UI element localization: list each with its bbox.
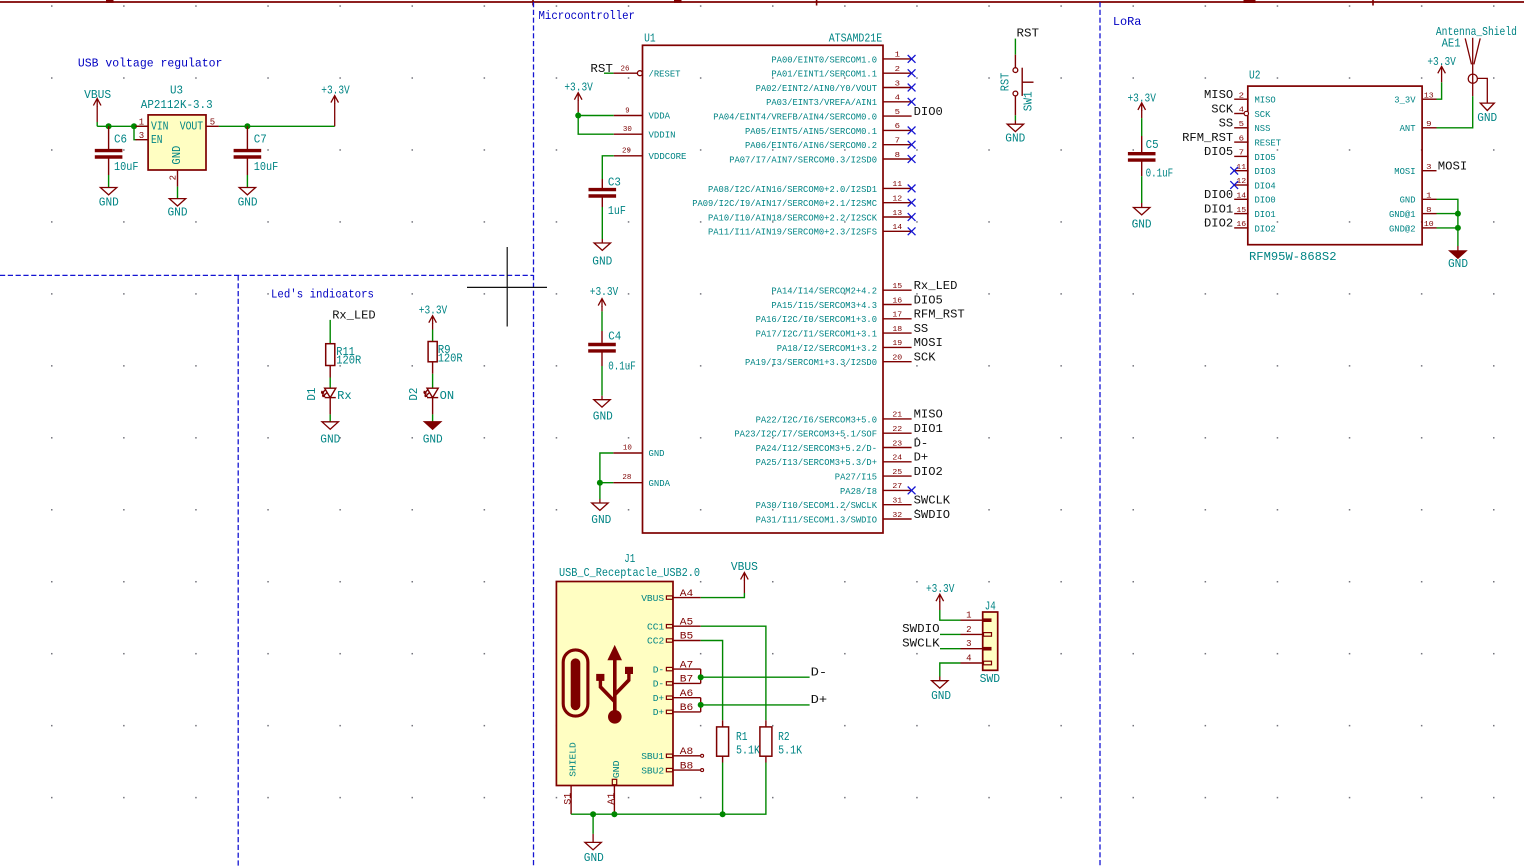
svg-text:3: 3: [966, 639, 971, 649]
svg-text:+3.3V: +3.3V: [419, 304, 448, 318]
svg-text:PA27/I15: PA27/I15: [835, 472, 877, 483]
svg-text:S1: S1: [564, 793, 575, 805]
wire J1 CC1 to R2: [701, 626, 766, 720]
wire +3.3V to J4 pin 1: [940, 610, 961, 620]
svg-text:Microcontroller: Microcontroller: [539, 9, 636, 23]
U1 pin 6 (PA05/EINT5/AIN5/SERCOM0.1): [745, 123, 912, 137]
svg-text:RFM_RST: RFM_RST: [914, 308, 965, 322]
no-connect cross on U1 pin 6: [908, 127, 916, 135]
svg-text:SCK: SCK: [1255, 109, 1271, 120]
J1 shield pin S1: [564, 742, 579, 814]
junction at VBUS/C6: [106, 123, 112, 129]
U2 pin 15 (DIO1): [1234, 207, 1276, 220]
ground symbol below D1: [322, 422, 338, 429]
svg-text:GND: GND: [611, 760, 622, 778]
junction at VBUS/EN branch: [131, 123, 137, 129]
U1 pin 12 (PA09/I2C/I9/AIN17/SERCOM0+2.1/I2SMC): [692, 196, 911, 210]
svg-text:4: 4: [895, 95, 900, 103]
U2 pin 13 (3_3V): [1394, 92, 1436, 105]
ground symbol below D2 (filled): [424, 422, 440, 429]
svg-text:PA28/I8: PA28/I8: [840, 486, 877, 497]
svg-text:GND@1: GND@1: [1389, 209, 1416, 220]
svg-text:10: 10: [623, 444, 632, 452]
svg-text:U2: U2: [1249, 69, 1261, 83]
svg-text:USB_C_Receptacle_USB2.0: USB_C_Receptacle_USB2.0: [559, 566, 700, 580]
svg-text:R1: R1: [736, 730, 748, 744]
U1 pin 7 (PA06/EINT6/AIN6/SERCOM0.2): [745, 138, 912, 152]
U1 pin 32 (PA31/I11/SECOM1.3/SWDIO): [756, 512, 912, 526]
section divider dashed line (vertical, LoRa left edge): [1099, 2, 1101, 867]
svg-text:16: 16: [1236, 221, 1246, 229]
svg-text:1: 1: [966, 611, 971, 621]
led D2: [424, 388, 438, 414]
U1 pin 25 (PA27/I15): [835, 469, 912, 483]
svg-text:C4: C4: [608, 329, 621, 343]
U2 pin 5 (NSS): [1234, 121, 1270, 134]
svg-text:4: 4: [1239, 107, 1244, 115]
junction GNDA: [597, 480, 603, 486]
ground symbol below C7: [239, 188, 255, 195]
svg-text:D-: D-: [653, 664, 665, 675]
svg-text:RESET: RESET: [1255, 138, 1282, 149]
svg-text:GND: GND: [1477, 111, 1497, 125]
capacitor C6: [95, 126, 123, 175]
svg-text:GND: GND: [1005, 131, 1025, 145]
wire R11 to D1: [329, 378, 331, 389]
wire U2 GND pins to ground: [1437, 199, 1458, 246]
svg-text:MOSI: MOSI: [1394, 166, 1415, 177]
svg-text:D+: D+: [653, 707, 665, 718]
sheet frame line (top border): [0, 0, 1524, 6]
ground symbol below J1: [585, 834, 601, 850]
voltage regulator U3 body: [148, 115, 206, 170]
U1 pin 22 (PA23/I2C/I7/SERCOM3+5.1/SOF): [734, 426, 911, 440]
svg-text:DIO3: DIO3: [1255, 166, 1276, 177]
U3 pin 3 EN: [136, 131, 163, 147]
wire Rx_LED label to R11: [329, 320, 331, 344]
svg-text:10: 10: [1424, 221, 1434, 229]
U1 pin 17 (PA16/I2C/I0/SERCOM1+3.0): [756, 312, 912, 326]
svg-text:28: 28: [622, 474, 631, 482]
no-connect cross on U1 pin 3: [908, 84, 916, 92]
U1 pin 4 (PA03/EINT3/VREFA/AIN1): [766, 95, 912, 109]
svg-text:A6: A6: [680, 689, 694, 700]
svg-text:DIO2: DIO2: [1255, 223, 1276, 234]
power flag +3.3V (led ON chain): [429, 316, 437, 330]
svg-text:1: 1: [895, 52, 900, 60]
svg-text:CC1: CC1: [647, 621, 664, 632]
svg-text:DIO1: DIO1: [914, 422, 943, 436]
led D1: [322, 388, 336, 414]
svg-text:RST: RST: [998, 73, 1012, 92]
capacitor C3: [589, 179, 617, 207]
junction D+: [698, 702, 704, 708]
svg-text:VBUS: VBUS: [731, 560, 758, 574]
U2 pin 4 (SCK): [1234, 107, 1270, 120]
svg-text:MOSI: MOSI: [1438, 160, 1468, 174]
U2 pin 1 (GND): [1400, 193, 1437, 206]
U1 pin 16 (PA15/I15/SERCOM3+4.3): [771, 297, 911, 311]
svg-text:11: 11: [892, 181, 902, 189]
svg-text:+3.3V: +3.3V: [1127, 92, 1156, 106]
svg-text:3: 3: [139, 131, 144, 141]
connector J4 body: [983, 612, 998, 670]
svg-text:18: 18: [892, 326, 902, 334]
svg-text:SCK: SCK: [1211, 102, 1233, 116]
section divider dashed line (vertical, Microcontroller left edge): [533, 2, 535, 867]
ground symbol below SW1: [1007, 121, 1023, 132]
wire bus to ground: [592, 814, 594, 834]
svg-text:PA17/I2C/I1/SERCOM1+3.1: PA17/I2C/I1/SERCOM1+3.1: [756, 329, 878, 340]
svg-text:PA03/EINT3/VREFA/AIN1: PA03/EINT3/VREFA/AIN1: [766, 97, 877, 108]
wire SWDIO to J4 pin 2: [940, 633, 961, 635]
svg-text:SBU2: SBU2: [641, 765, 664, 776]
no-connect cross on U1 pin 13: [908, 213, 916, 221]
U2 pin 6 (RESET): [1234, 135, 1281, 148]
svg-text:SWCLK: SWCLK: [914, 494, 951, 508]
svg-text:PA11/I11/AIN19/SERCOM0+2.3/I2S: PA11/I11/AIN19/SERCOM0+2.3/I2SFS: [708, 227, 877, 238]
ground symbol below U1 GND pins: [592, 499, 608, 510]
svg-text:GND: GND: [1132, 218, 1152, 232]
svg-text:23: 23: [892, 440, 902, 448]
svg-text:PA10/I10/AIN18/SERCOM0+2.2/I2S: PA10/I10/AIN18/SERCOM0+2.2/I2SCK: [708, 212, 877, 223]
svg-text:2: 2: [168, 175, 178, 180]
svg-text:8: 8: [895, 152, 900, 160]
svg-text:RST: RST: [590, 62, 613, 76]
svg-text:SWDIO: SWDIO: [914, 508, 951, 522]
no-connect cross on U1 pin 1: [908, 55, 916, 63]
wire VDDCORE to C3: [602, 156, 614, 179]
svg-text:/RESET: /RESET: [649, 68, 681, 79]
svg-text:29: 29: [622, 147, 631, 155]
wire D2 to ground: [432, 414, 434, 421]
svg-text:GND: GND: [423, 432, 443, 446]
svg-text:A1: A1: [607, 793, 618, 805]
svg-text:PA30/I10/SECOM1.2/SWCLK: PA30/I10/SECOM1.2/SWCLK: [756, 500, 878, 511]
svg-text:PA04/EINT4/VREFB/AIN4/SERCOM0.: PA04/EINT4/VREFB/AIN4/SERCOM0.0: [713, 112, 877, 123]
svg-text:26: 26: [621, 66, 630, 74]
svg-text:5: 5: [1239, 121, 1244, 129]
microcontroller U1 body: [643, 45, 884, 533]
svg-text:GND: GND: [1448, 257, 1468, 271]
svg-text:EN: EN: [151, 133, 163, 147]
U3 pin 5 VOUT: [180, 118, 219, 134]
wire D- to label: [701, 676, 810, 678]
U1 pin 19 (PA18/I2/SERCOM1+3.2): [777, 340, 912, 354]
svg-text:A4: A4: [680, 589, 694, 600]
svg-text:10uF: 10uF: [254, 160, 278, 174]
wire RST label to /RESET pin: [604, 72, 614, 74]
J4 pin 3: [961, 639, 992, 650]
junction U2 GND@2: [1455, 225, 1461, 231]
J1 pin B8 (SBU2): [641, 761, 700, 776]
svg-text:D+: D+: [914, 451, 929, 465]
unconnected pin end circle on J1 pin A8: [701, 754, 704, 757]
wire J1 VBUS pin to VBUS flag: [701, 593, 745, 598]
J4 pin 1: [961, 611, 992, 622]
svg-text:GND: GND: [584, 851, 604, 865]
U1 pin 27 (PA28/I8): [840, 483, 912, 497]
svg-text:GND: GND: [238, 196, 258, 210]
svg-text:VBUS: VBUS: [641, 593, 664, 604]
U3 pin 1 VIN: [136, 118, 169, 134]
svg-text:D-: D-: [914, 436, 929, 450]
svg-text:SW1: SW1: [1022, 91, 1036, 111]
J1 ground pin A1: [607, 760, 622, 814]
svg-text:DIO5: DIO5: [1255, 152, 1276, 163]
wire C3 to ground: [601, 207, 603, 239]
ground symbol below U3: [169, 199, 185, 206]
svg-text:0.1uF: 0.1uF: [1146, 167, 1174, 181]
svg-text:22: 22: [892, 426, 902, 434]
power flag +3.3V (regulator output): [331, 96, 339, 127]
U2 pin 11 (DIO3): [1234, 164, 1276, 177]
svg-text:10uF: 10uF: [114, 160, 139, 174]
svg-text:2: 2: [895, 66, 900, 74]
svg-text:A5: A5: [680, 617, 694, 628]
svg-text:9: 9: [1426, 121, 1431, 129]
svg-text:R2: R2: [778, 730, 790, 744]
svg-text:SBU1: SBU1: [641, 751, 664, 762]
svg-text:6: 6: [1239, 135, 1244, 143]
svg-text:D+: D+: [653, 693, 665, 704]
svg-text:120R: 120R: [336, 353, 361, 367]
junction bus/S1-A1: [590, 811, 596, 817]
wire AE1 shield to ground: [1477, 78, 1487, 102]
svg-text:PA15/I15/SERCOM3+4.3: PA15/I15/SERCOM3+4.3: [771, 300, 877, 311]
svg-text:32: 32: [892, 512, 902, 520]
U1 pin 2 (PA01/EINT1/SERCOM1.1): [771, 66, 911, 80]
svg-text:7: 7: [895, 138, 900, 146]
ground symbol below C5: [1134, 203, 1150, 215]
svg-text:DIO5: DIO5: [914, 293, 943, 307]
wire VBUS power to U3 VIN: [97, 122, 148, 126]
J1 pin B7 (D-): [653, 675, 701, 690]
svg-text:U3: U3: [170, 84, 183, 98]
svg-text:2: 2: [1239, 92, 1244, 100]
wire D+ to label: [701, 704, 810, 706]
U1 pin 21 (PA22/I2C/I6/SERCOM3+5.0): [756, 412, 912, 426]
wire RST label to SW1: [1014, 39, 1016, 55]
svg-text:+3.3V: +3.3V: [1427, 55, 1456, 69]
no-connect cross on U1 pin 7: [908, 141, 916, 149]
U1 pin 18 (PA17/I2C/I1/SERCOM1+3.1): [756, 326, 912, 340]
wire +3.3V branch to VDDIN: [578, 116, 614, 135]
svg-text:GND: GND: [593, 410, 613, 424]
svg-text:4: 4: [966, 653, 971, 663]
svg-text:D+: D+: [811, 693, 828, 707]
no-connect cross on U1 pin 27: [908, 487, 916, 495]
ground symbol below C6: [100, 188, 116, 195]
wire U2 3_3V pin to +3.3V flag: [1437, 82, 1442, 99]
J1 pin B6 (D+): [653, 703, 701, 718]
svg-text:PA31/I11/SECOM1.3/SWDIO: PA31/I11/SECOM1.3/SWDIO: [756, 514, 878, 525]
svg-text:12: 12: [892, 196, 902, 204]
svg-text:VDDIN: VDDIN: [649, 129, 676, 140]
svg-text:GND: GND: [320, 432, 340, 446]
svg-text:MISO: MISO: [914, 408, 943, 422]
no-connect cross on U1 pin 12: [908, 199, 916, 207]
junction at VOUT/C7: [244, 123, 250, 129]
svg-text:PA25/I13/SERCOM3+5.3/D+: PA25/I13/SERCOM3+5.3/D+: [756, 457, 878, 468]
svg-text:19: 19: [892, 340, 902, 348]
svg-text:PA18/I2/SERCOM1+3.2: PA18/I2/SERCOM1+3.2: [777, 343, 878, 354]
svg-text:GND: GND: [168, 206, 188, 220]
svg-text:+3.3V: +3.3V: [926, 582, 955, 596]
U1 pin 20 (PA19/I3/SERCOM1+3.3/I2SD0): [745, 355, 912, 369]
no-connect cross on U1 pin 4: [908, 98, 916, 106]
svg-text:2: 2: [966, 625, 971, 635]
svg-text:17: 17: [892, 312, 902, 320]
push button SW1: [1013, 55, 1034, 116]
svg-text:B6: B6: [680, 703, 694, 714]
wire U2 ANT pin to antenna: [1437, 96, 1473, 128]
svg-text:GND: GND: [592, 255, 612, 269]
svg-text:DIO0: DIO0: [914, 105, 943, 119]
svg-text:D1: D1: [305, 388, 319, 401]
U2 pin 9 (ANT): [1400, 121, 1437, 134]
J1 pin A4 (VBUS): [641, 589, 701, 604]
svg-text:27: 27: [892, 483, 902, 491]
power flag +3.3V (C4 bypass): [598, 299, 606, 312]
svg-text:ANT: ANT: [1400, 123, 1416, 134]
svg-text:PA05/EINT5/AIN5/SERCOM0.1: PA05/EINT5/AIN5/SERCOM0.1: [745, 126, 877, 137]
wire SW1 to ground: [1014, 115, 1016, 120]
wire R9 to D2: [432, 374, 434, 388]
unconnected pin end circle on J1 pin B8: [701, 769, 704, 772]
svg-text:3: 3: [1426, 164, 1431, 172]
wire EN branch: [134, 126, 137, 139]
svg-text:30: 30: [623, 126, 632, 134]
U2 pin 2 (MISO): [1234, 92, 1276, 105]
svg-text:PA07/I7/AIN7/SERCOM0.3/I2SD0: PA07/I7/AIN7/SERCOM0.3/I2SD0: [729, 154, 877, 165]
svg-text:D2: D2: [407, 388, 421, 401]
wire C4 to ground: [601, 366, 603, 396]
J1 pin A5 (CC1): [647, 617, 701, 632]
svg-text:U1: U1: [644, 32, 656, 46]
svg-text:PA01/EINT1/SERCOM1.1: PA01/EINT1/SERCOM1.1: [771, 69, 877, 80]
svg-text:7: 7: [1239, 150, 1244, 158]
section divider dashed line (horizontal, below USB voltage regulator): [0, 274, 534, 276]
svg-text:PA19/I3/SERCOM1+3.3/I2SD0: PA19/I3/SERCOM1+3.3/I2SD0: [745, 357, 877, 368]
junction bus/R1: [720, 811, 726, 817]
svg-text:1: 1: [139, 118, 144, 128]
J1 pin A6 (D+): [653, 689, 701, 704]
power flag VBUS (at J1): [741, 573, 749, 594]
svg-text:LoRa: LoRa: [1113, 15, 1142, 29]
wire J1 CC2 to R1: [701, 641, 723, 721]
U1 pin 11 (PA08/I2C/AIN16/SERCOM0+2.0/I2SD1): [708, 181, 912, 195]
ground symbol below C3: [594, 239, 610, 250]
svg-text:20: 20: [892, 355, 902, 363]
svg-text:C7: C7: [254, 132, 267, 146]
svg-text:5.1K: 5.1K: [778, 743, 803, 757]
svg-text:14: 14: [892, 224, 902, 232]
svg-text:8: 8: [1426, 207, 1431, 215]
J1 pin B5 (CC2): [647, 632, 701, 647]
J4 pin 4: [961, 653, 992, 664]
junction +3.3V/VDDA: [575, 113, 581, 119]
svg-text:B5: B5: [680, 632, 694, 643]
U2 pin 12 (DIO4): [1234, 178, 1276, 191]
svg-text:Led's indicators: Led's indicators: [271, 287, 374, 301]
U1 pin 23 (PA24/I12/SERCOM3+5.2/D-): [756, 440, 912, 454]
svg-text:24: 24: [892, 455, 902, 463]
wire U3 VOUT to +3.3V: [219, 125, 335, 127]
U1 pin 24 (PA25/I13/SERCOM3+5.3/D+): [756, 455, 912, 469]
svg-text:USB voltage regulator: USB voltage regulator: [78, 56, 223, 70]
svg-text:PA09/I2C/I9/AIN17/SERCOM0+2.1/: PA09/I2C/I9/AIN17/SERCOM0+2.1/I2SMC: [692, 198, 877, 209]
svg-text:DIO0: DIO0: [1255, 195, 1276, 206]
svg-text:SS: SS: [1219, 117, 1234, 131]
U2 pin 14 (DIO0): [1234, 193, 1276, 206]
svg-text:3_3V: 3_3V: [1394, 95, 1415, 106]
svg-text:DIO5: DIO5: [1204, 145, 1233, 159]
svg-text:VOUT: VOUT: [180, 120, 204, 134]
svg-text:DIO4: DIO4: [1255, 180, 1276, 191]
svg-text:ON: ON: [440, 389, 455, 403]
power flag VBUS (top-left): [93, 99, 101, 123]
sheet centre crosshair mark: [467, 247, 547, 327]
U2 pin 8 (GND@1): [1389, 207, 1437, 220]
svg-text:GND: GND: [591, 513, 611, 527]
capacitor C7: [234, 126, 262, 175]
svg-text:5.1K: 5.1K: [736, 743, 761, 757]
resistor R2: [760, 720, 772, 762]
wire +3.3V to C5: [1141, 118, 1143, 136]
power flag +3.3V (U1 supply): [574, 93, 582, 112]
svg-text:AP2112K-3.3: AP2112K-3.3: [141, 98, 213, 112]
svg-text:C6: C6: [114, 132, 127, 146]
wire +3.3V to C4: [601, 311, 603, 331]
no-connect cross on U1 pin 2: [908, 69, 916, 77]
junction D-: [698, 674, 704, 680]
U1 pin 14 (PA11/I11/AIN19/SERCOM0+2.3/I2SFS): [708, 224, 912, 238]
svg-text:GNDA: GNDA: [649, 478, 671, 489]
svg-text:PA24/I12/SERCOM3+5.2/D-: PA24/I12/SERCOM3+5.2/D-: [756, 443, 877, 454]
svg-text:GND: GND: [99, 196, 119, 210]
U2 pin 3 (MOSI): [1394, 164, 1436, 177]
svg-text:PA23/I2C/I7/SERCOM3+5.1/SOF: PA23/I2C/I7/SERCOM3+5.1/SOF: [734, 429, 877, 440]
capacitor C5: [1128, 136, 1156, 176]
U2 pin 16 (DIO2): [1234, 221, 1276, 234]
svg-text:VDDCORE: VDDCORE: [649, 151, 687, 162]
U1 pin 29 VDDCORE: [614, 147, 687, 162]
U1 pin 13 (PA10/I10/AIN18/SERCOM0+2.2/I2SCK): [708, 210, 912, 224]
svg-text:DIO2: DIO2: [914, 465, 943, 479]
junction bus/A1: [611, 811, 617, 817]
U3 pin 2 GND (bottom): [168, 146, 183, 187]
svg-text:PA08/I2C/AIN16/SERCOM0+2.0/I2S: PA08/I2C/AIN16/SERCOM0+2.0/I2SD1: [708, 184, 877, 195]
svg-text:SWD: SWD: [980, 672, 1001, 686]
svg-text:15: 15: [892, 283, 902, 291]
U1 pin 9 VDDA: [614, 107, 670, 121]
svg-text:3: 3: [895, 80, 900, 88]
svg-text:AE1: AE1: [1442, 36, 1461, 50]
svg-text:CC2: CC2: [647, 636, 664, 647]
svg-text:+3.3V: +3.3V: [590, 285, 619, 299]
wire U3 GND pin to ground: [177, 187, 179, 199]
svg-text:5: 5: [895, 109, 900, 117]
svg-text:B7: B7: [680, 675, 694, 686]
svg-text:Rx: Rx: [337, 389, 352, 403]
USB connector J1 body: [556, 582, 673, 786]
svg-text:MISO: MISO: [1255, 95, 1276, 106]
no-connect cross on U1 pin 11: [908, 185, 916, 193]
svg-text:9: 9: [625, 107, 629, 115]
svg-text:PA22/I2C/I6/SERCOM3+5.0: PA22/I2C/I6/SERCOM3+5.0: [756, 414, 878, 425]
svg-text:C3: C3: [608, 176, 621, 190]
